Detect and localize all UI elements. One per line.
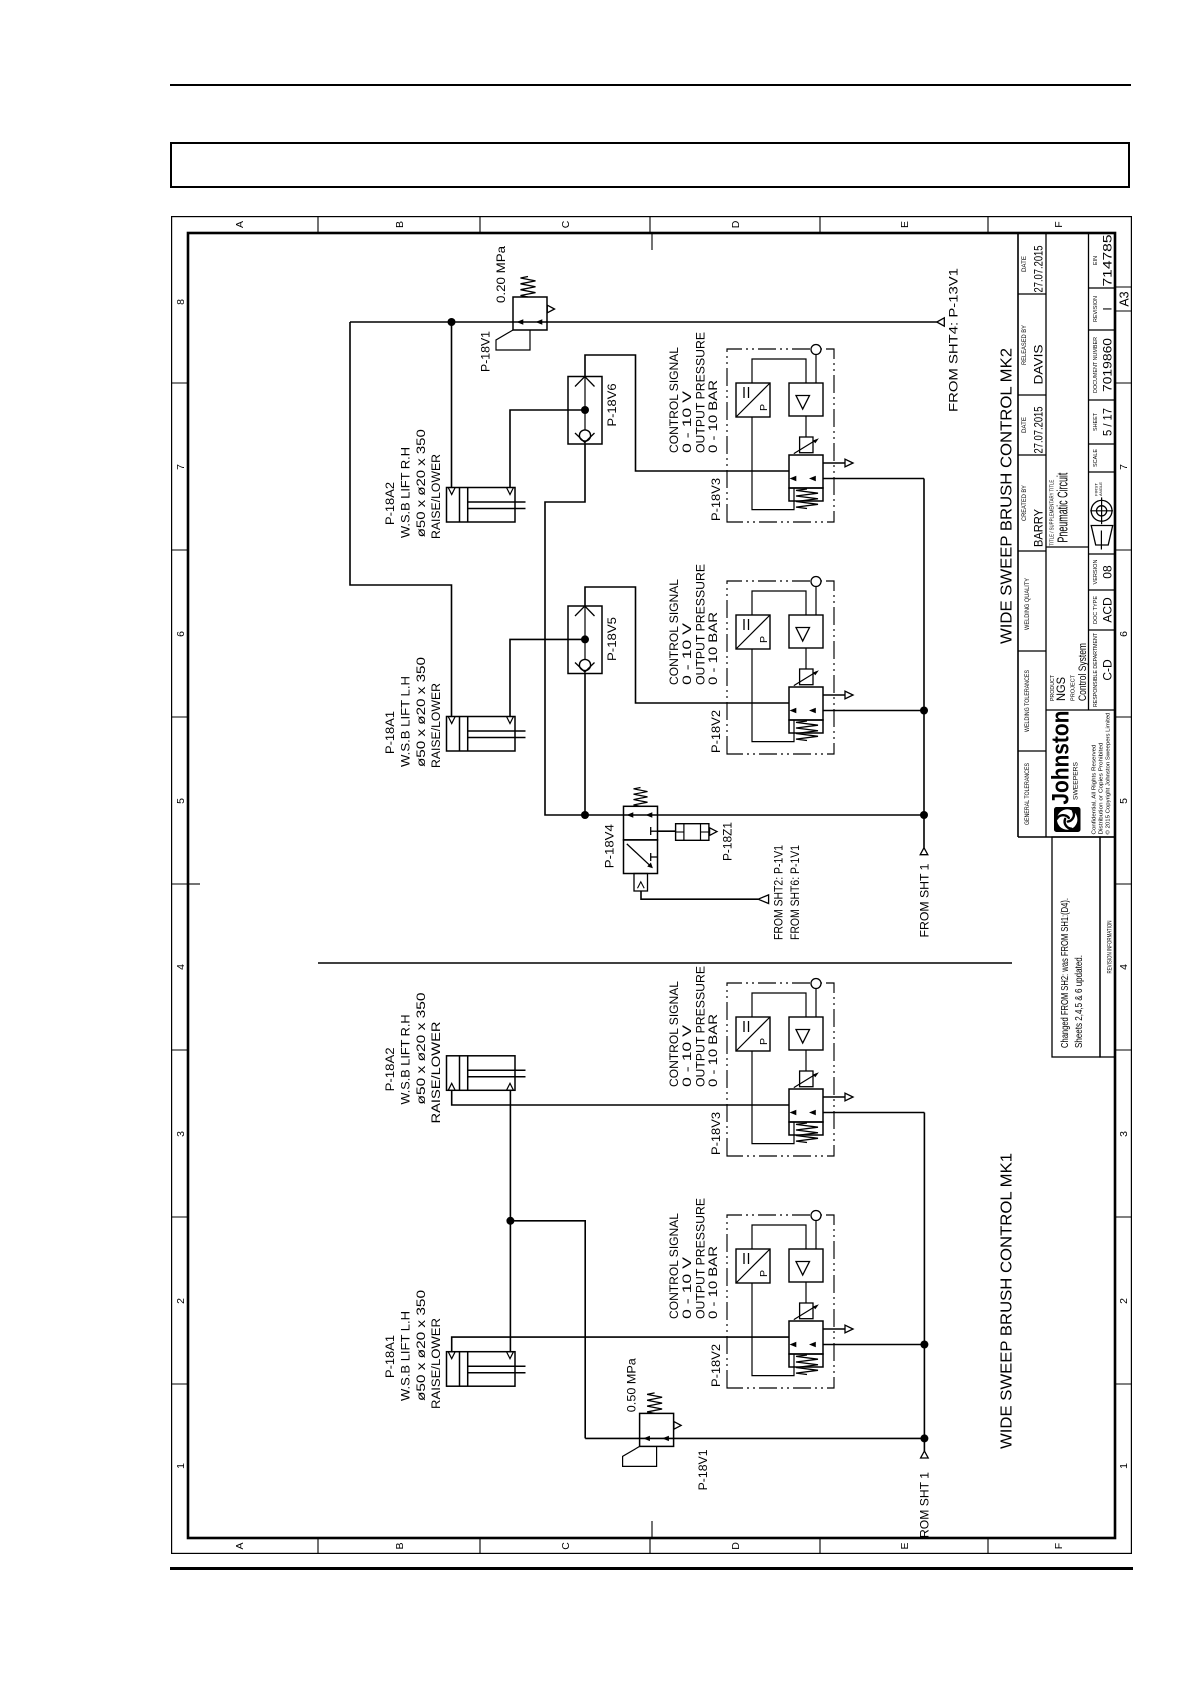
svg-text:3: 3 (175, 1131, 187, 1137)
svg-text:2: 2 (1118, 1298, 1130, 1304)
P-18V3 amplifier-throttle line (805, 416, 807, 437)
svg-text:5: 5 (175, 798, 187, 804)
wire P-18V5 to P-18V2 output (585, 587, 789, 703)
grid row dividers left margin (317, 1538, 319, 1553)
P-18V3 valve spring (796, 489, 818, 509)
svg-text:ø50 x ø20 x 350: ø50 x ø20 x 350 (416, 657, 428, 767)
svg-text:WELDING TOLERANCES: WELDING TOLERANCES (1024, 670, 1031, 732)
svg-text:2: 2 (175, 1298, 187, 1304)
cylinder P-18A2 MK2 port arrows (448, 488, 455, 495)
svg-text:P-18A1: P-18A1 (385, 711, 397, 754)
svg-text:RAISE/LOWER: RAISE/LOWER (431, 454, 443, 539)
svg-text:SHEET: SHEET (1093, 412, 1099, 431)
svg-text:OUTPUT PRESSURE: OUTPUT PRESSURE (696, 332, 708, 453)
svg-text:Pneumatic Circuit: Pneumatic Circuit (1056, 473, 1072, 543)
P-18V3 MK1 signal link line (752, 1051, 794, 1144)
svg-text:W.S.B LIFT R.H: W.S.B LIFT R.H (401, 1015, 413, 1105)
P-18V2 MK1 converter-amplifier connection (752, 1225, 806, 1249)
regulator P-18V1 spring (521, 277, 536, 298)
grid column dividers bottom margin (1115, 1383, 1131, 1385)
svg-text:BARRY: BARRY (1034, 509, 1046, 547)
cylinder P-18A1 MK2 rod (468, 737, 526, 739)
svg-text:SCALE: SCALE (1093, 449, 1099, 467)
MK2 P-18V2 input from rail (823, 710, 924, 712)
svg-text:27.07.2015: 27.07.2015 (1034, 246, 1046, 293)
wire P-18V5 left port to P-18V4 junction (584, 674, 586, 816)
svg-text:714785: 714785 (1101, 234, 1115, 286)
P-18V3 exhaust line (823, 462, 845, 464)
svg-text:Johnston: Johnston (1048, 711, 1075, 805)
cylinder P-18A1 MK2 port arrows (448, 717, 455, 724)
svg-text:P-18A1: P-18A1 (385, 1335, 397, 1378)
svg-text:DAVIS: DAVIS (1034, 344, 1046, 384)
svg-text:P-18V1: P-18V1 (698, 1449, 710, 1490)
svg-text:A: A (234, 1542, 246, 1549)
svg-text:WIDE SWEEP BRUSH CONTROL MK2: WIDE SWEEP BRUSH CONTROL MK2 (999, 348, 1016, 644)
P-18V4 pilot line (641, 891, 758, 899)
P-18V3 gauge port line (815, 355, 817, 384)
drawing inner frame (188, 233, 1115, 1538)
junction shuttle P-18V6 inlet (581, 406, 589, 414)
svg-text:FROM SHT6: P-1V1: FROM SHT6: P-1V1 (790, 845, 802, 940)
svg-text:DOCUMENT NUMBER: DOCUMENT NUMBER (1093, 337, 1099, 393)
centre tick left edge (651, 1521, 653, 1538)
first angle projection symbol (1091, 526, 1113, 546)
svg-text:8: 8 (175, 299, 187, 305)
regulator P-18V1 MK1 pilot line (623, 1446, 657, 1466)
proportional pressure control valve P-18V2 MK1 enclosure (727, 1215, 834, 1388)
svg-text:F: F (1053, 221, 1065, 227)
centre tick right edge (651, 233, 653, 250)
wire P-18V6 left port to P-18V4 junction (545, 444, 585, 815)
paper size A3 box (1115, 310, 1131, 312)
svg-text:7: 7 (175, 464, 187, 470)
title block row line 2 (1088, 233, 1090, 710)
svg-text:3: 3 (1118, 1131, 1130, 1137)
svg-text:P: P (758, 636, 770, 643)
P-18V2 MK1 gauge port line (815, 1221, 817, 1250)
P-18V3 MK1 adjustable throttle (800, 1071, 813, 1087)
P-18V2 gauge port line (815, 587, 817, 616)
P-18V3 MK1 valve flow arrows (790, 1110, 797, 1115)
page header rule (170, 84, 1131, 86)
arrow from SHT1 MK1 (921, 1451, 929, 1458)
svg-text:0 - 10 BAR: 0 - 10 BAR (708, 612, 720, 685)
svg-text:P-18Z1: P-18Z1 (723, 822, 735, 861)
P-18V3 MK1 valve body (789, 1089, 823, 1122)
svg-text:P-18V2: P-18V2 (711, 710, 723, 753)
svg-text:7: 7 (1118, 464, 1130, 470)
svg-text:P-18A2: P-18A2 (385, 1047, 397, 1091)
P-18V3 amplifier square (789, 383, 823, 416)
arrow from SHT1 MK2 (920, 848, 928, 855)
P-18V4 blocked port left square (650, 853, 652, 861)
svg-text:Sheets 2,4,5 & 6 updated.: Sheets 2,4,5 & 6 updated. (1073, 955, 1085, 1048)
svg-text:DOC TYPE: DOC TYPE (1093, 596, 1099, 624)
silencer P-18Z1 connection (658, 830, 676, 832)
P-18V2 MK1 signal link line (752, 1283, 794, 1376)
svg-text:7019860: 7019860 (1101, 338, 1115, 392)
svg-text:B: B (394, 221, 406, 228)
title block column line logo (1046, 709, 1115, 711)
svg-text:VERSION: VERSION (1093, 559, 1099, 584)
svg-text:RELEASED BY: RELEASED BY (1021, 325, 1028, 365)
svg-text:OUTPUT PRESSURE: OUTPUT PRESSURE (696, 1198, 708, 1319)
svg-text:I: I (1101, 307, 1115, 310)
MK2 supply rail from SHT 1 (923, 479, 925, 848)
pressure regulator P-18V1 body (513, 297, 547, 330)
P-18V2 amplifier square (789, 615, 823, 648)
junction rail/P-18V2 MK1 (920, 1341, 928, 1349)
svg-text:OUTPUT PRESSURE: OUTPUT PRESSURE (696, 564, 708, 685)
P-18V3 MK1 valve spring (796, 1123, 818, 1143)
MK1 P-18V3 input from rail (823, 1112, 924, 1114)
P-18V3 MK1 gauge port circle (811, 979, 821, 989)
regulator P-18V1 MK1 relief vent triangle (674, 1422, 681, 1430)
svg-text:27.07.2015: 27.07.2015 (1034, 407, 1046, 454)
svg-text:0 - 10 BAR: 0 - 10 BAR (708, 380, 720, 453)
svg-text:E: E (899, 1542, 911, 1549)
Johnston logo mark (1055, 808, 1081, 832)
svg-text:C: C (560, 1542, 572, 1550)
P-18V2 exhaust line (823, 694, 845, 696)
P-18V3 I/P converter square (736, 383, 770, 417)
P-18V3 MK1 converter-amplifier connection (752, 993, 806, 1017)
svg-text:P: P (758, 404, 770, 411)
P-18V3 MK1 I/P converter square (736, 1017, 770, 1051)
P-18V2 MK1 valve spring (796, 1355, 818, 1375)
svg-text:E: E (899, 221, 911, 228)
drawing outer border (172, 217, 1132, 1554)
P-18V2 MK1 amplifier-throttle line (805, 1282, 807, 1303)
svg-text:ø50 x ø20 x 350: ø50 x ø20 x 350 (416, 429, 428, 537)
svg-text:CONTROL SIGNAL: CONTROL SIGNAL (669, 1212, 681, 1319)
cylinder P-18A1 MK1 rod (468, 1372, 526, 1374)
shuttle valve P-18V5 right seat (575, 606, 595, 616)
P-18V3 MK1 I/P electric symbol (743, 1021, 745, 1032)
wire P-18A2 port B to shuttle P-18V6 (510, 410, 585, 488)
svg-text:Distribution or Copies Prohibi: Distribution or Copies Prohibited (1099, 742, 1105, 834)
arrow from SHT4 (937, 318, 945, 326)
regulator P-18V1 pilot line (496, 330, 530, 350)
svg-text:5 / 17: 5 / 17 (1101, 408, 1115, 436)
P-18V3 exhaust arrow (845, 459, 853, 467)
cylinder P-18A1 MK1 piston (459, 1352, 461, 1387)
svg-text:6: 6 (175, 631, 187, 637)
page footer rule (170, 1567, 1133, 1570)
junction rail/P-18V2 (920, 707, 928, 715)
junction rail/P-18V4 (920, 811, 928, 819)
cylinder P-18A1 MK1 barrel (447, 1352, 516, 1387)
svg-text:Control System: Control System (1077, 643, 1089, 701)
cylinder P-18A2 MK1 rod (468, 1076, 526, 1078)
centre tick top edge (188, 883, 200, 885)
wire P-18A1 port B to shuttle P-18V5 (510, 639, 585, 716)
svg-text:0 - 10 V: 0 - 10 V (682, 1025, 694, 1087)
P-18V2 MK1 exhaust line (823, 1328, 845, 1330)
svg-text:© 2015 Copyright Johnston Swee: © 2015 Copyright Johnston Sweepers Limit… (1105, 712, 1112, 834)
svg-text:08: 08 (1101, 565, 1115, 579)
proportional pressure control valve P-18V2 enclosure (727, 581, 834, 754)
svg-text:A3: A3 (1118, 291, 1132, 306)
svg-text:SWEEPERS: SWEEPERS (1073, 762, 1080, 800)
shuttle valve P-18V5 body (568, 606, 602, 674)
P-18V2 exhaust arrow (845, 691, 853, 699)
cylinder P-18A1 MK2 barrel (447, 717, 516, 752)
title block column lines row3 (1089, 629, 1116, 631)
P-18V4 blocked port right square (650, 827, 652, 835)
svg-text:1: 1 (1118, 1463, 1130, 1469)
shuttle valve P-18V6 right seat (575, 377, 595, 387)
junction shuttle P-18V5 inlet (581, 635, 589, 643)
MK1 supply rail riser (585, 1437, 924, 1439)
P-18V2 valve flow arrows (790, 708, 797, 713)
svg-text:Confidential, All Rights Reser: Confidential, All Rights Reserved (1092, 744, 1098, 834)
svg-text:ROM SHT 1: ROM SHT 1 (920, 1472, 932, 1538)
title block column lines row1 (1018, 750, 1046, 752)
wire P-18V6 to P-18V3 output (585, 355, 789, 471)
P-18V2 MK1 amplifier square (789, 1249, 823, 1282)
svg-text:0.50 MPa: 0.50 MPa (627, 1358, 639, 1413)
P-18V3 converter-amplifier connection (752, 359, 806, 383)
shuttle valve P-18V6 flow line (584, 377, 586, 445)
svg-text:GENERAL TOLERANCES: GENERAL TOLERANCES (1024, 763, 1031, 825)
svg-text:0 - 10 V: 0 - 10 V (682, 391, 694, 453)
svg-text:P-18V1: P-18V1 (481, 331, 493, 372)
svg-text:CREATED BY: CREATED BY (1021, 485, 1028, 521)
svg-text:4: 4 (175, 964, 187, 970)
wire P-18A2 MK1 port A to P-18V3 (452, 1090, 789, 1105)
MK1 riser to junction (510, 1221, 585, 1439)
P-18V3 MK1 gauge port line (815, 989, 817, 1018)
regulator P-18V1 MK1 flow arrows (643, 1436, 650, 1441)
P-18V2 adjustable throttle (800, 669, 813, 685)
svg-text:ø50 x ø20 x 350: ø50 x ø20 x 350 (416, 993, 428, 1105)
svg-text:D: D (730, 220, 742, 228)
P-18V3 MK1 amplifier square (789, 1017, 823, 1050)
junction rail/riser MK1 (920, 1434, 928, 1442)
svg-text:6: 6 (1118, 631, 1130, 637)
revision information strip (1100, 837, 1115, 1057)
P-18V2 signal link line (752, 649, 794, 742)
P-18V3 gauge port circle (811, 345, 821, 355)
svg-text:5: 5 (1118, 798, 1130, 804)
cylinder P-18A2 MK2 rod (468, 508, 526, 510)
svg-text:RAISE/LOWER: RAISE/LOWER (431, 1318, 443, 1409)
P-18V2 MK1 valve flow arrows (790, 1342, 797, 1347)
svg-text:C-D: C-D (1101, 659, 1115, 681)
cylinder P-18A2 MK1 piston (459, 1056, 461, 1091)
P-18V2 MK1 valve body (789, 1321, 823, 1354)
grid column dividers top margin (172, 1383, 188, 1385)
MK1 supply rail from SHT 1 (923, 1113, 925, 1452)
svg-text:ACD: ACD (1101, 597, 1115, 623)
svg-text:W.S.B LIFT L.H: W.S.B LIFT L.H (401, 676, 413, 767)
svg-text:C: C (560, 220, 572, 228)
P-18V3 valve flow arrows (790, 476, 797, 481)
P-18V3 amplifier triangle (796, 396, 810, 410)
P-18V3 MK1 amplifier triangle (796, 1030, 810, 1044)
P-18V4 pilot box (634, 874, 648, 892)
grid row dividers right margin (317, 217, 319, 233)
P-18V2 MK1 adjustable throttle (800, 1303, 813, 1319)
proportional pressure control valve P-18V3 MK1 enclosure (727, 983, 834, 1156)
regulator P-18V1 relief vent triangle (547, 305, 554, 313)
svg-text:CONTROL SIGNAL: CONTROL SIGNAL (669, 578, 681, 685)
P-18V2 MK1 I/P electric symbol (743, 1253, 745, 1264)
svg-text:B: B (394, 1542, 406, 1549)
svg-text:0.20 MPa: 0.20 MPa (496, 245, 508, 303)
title block row line 1 (1045, 233, 1047, 837)
P-18V3 signal link line (752, 417, 794, 510)
svg-text:DATE: DATE (1021, 256, 1028, 272)
svg-text:ø50 x ø20 x 350: ø50 x ø20 x 350 (416, 1290, 428, 1401)
svg-text:4: 4 (1118, 964, 1130, 970)
MK2 supply top detour to P-18A1 (350, 322, 452, 716)
cylinder P-18A2 MK2 piston (459, 488, 461, 523)
page header empty box (170, 142, 1130, 188)
P-18V2 amplifier triangle (796, 628, 810, 642)
svg-text:WELDING QUALITY: WELDING QUALITY (1024, 578, 1031, 630)
half divider line between MK1 and MK2 (318, 962, 1012, 964)
shuttle valve P-18V6 body (568, 377, 602, 445)
regulator P-18V1 flow arrows (517, 319, 524, 324)
svg-text:REVISION: REVISION (1093, 296, 1099, 322)
svg-text:FROM SHT4: P-13V1: FROM SHT4: P-13V1 (947, 268, 961, 412)
P-18V2 I/P converter square (736, 615, 770, 649)
pressure regulator P-18V1 MK1 body (640, 1413, 674, 1446)
svg-text:EIN: EIN (1093, 256, 1099, 265)
svg-text:0 - 10 V: 0 - 10 V (682, 623, 694, 685)
P-18V4 spring (634, 788, 648, 807)
svg-text:0 - 10 BAR: 0 - 10 BAR (708, 1246, 720, 1319)
svg-text:P-18A2: P-18A2 (385, 482, 397, 525)
svg-text:CONTROL SIGNAL: CONTROL SIGNAL (669, 980, 681, 1087)
P-18V2 amplifier-throttle line (805, 648, 807, 669)
shuttle valve P-18V5 left seat (575, 663, 595, 673)
svg-text:CONTROL SIGNAL: CONTROL SIGNAL (669, 346, 681, 453)
svg-text:0 - 10 V: 0 - 10 V (682, 1257, 694, 1319)
svg-text:NGS: NGS (1056, 677, 1068, 701)
P-18V2 MK1 exhaust arrow (845, 1325, 853, 1333)
P-18V3 I/P electric symbol (743, 387, 745, 398)
svg-text:P-18V3: P-18V3 (711, 1112, 723, 1155)
cylinder P-18A1 MK2 piston (459, 717, 461, 752)
svg-text:P-18V4: P-18V4 (605, 824, 617, 869)
svg-text:F: F (1053, 1543, 1065, 1549)
svg-text:OUTPUT PRESSURE: OUTPUT PRESSURE (696, 966, 708, 1087)
junction at P-18V4 top (581, 811, 589, 819)
wire through P-18V4 to supply rail (585, 814, 924, 816)
shuttle valve P-18V5 ball (579, 659, 590, 670)
P-18V2 I/P electric symbol (743, 619, 745, 630)
MK2 P-18V3 input from rail (823, 478, 924, 480)
P-18V2 valve spring (796, 721, 818, 741)
svg-text:P-18V5: P-18V5 (607, 617, 619, 661)
svg-text:A: A (234, 221, 246, 228)
cylinder P-18A1 MK1 port arrows (448, 1352, 455, 1359)
P-18V2 MK1 amplifier triangle (796, 1262, 810, 1276)
svg-text:RAISE/LOWER: RAISE/LOWER (431, 1022, 443, 1124)
svg-text:PROJECT: PROJECT (1071, 674, 1077, 701)
svg-text:0 - 10 BAR: 0 - 10 BAR (708, 1014, 720, 1087)
svg-text:DATE: DATE (1021, 417, 1028, 433)
svg-text:W.S.B LIFT R.H: W.S.B LIFT R.H (401, 447, 413, 538)
shuttle valve P-18V6 ball (579, 430, 590, 441)
svg-text:REVISION INFORMATION: REVISION INFORMATION (1108, 921, 1114, 974)
junction supply/P-18A2 (448, 318, 456, 326)
svg-text:P-18V3: P-18V3 (711, 478, 723, 521)
svg-text:1: 1 (175, 1463, 187, 1469)
P-18V4 flow arrows (627, 812, 634, 817)
P-18V2 MK1 I/P converter square (736, 1249, 770, 1283)
P-18V3 MK1 exhaust arrow (845, 1093, 853, 1101)
svg-text:P-18V2: P-18V2 (711, 1344, 723, 1387)
wire junction to P-18A1 MK1 port B (509, 1221, 511, 1352)
svg-text:FROM SHT2: P-1V1: FROM SHT2: P-1V1 (774, 845, 786, 940)
svg-text:ANGLE: ANGLE (1098, 482, 1103, 496)
title block outline (1017, 233, 1019, 837)
P-18V3 MK1 amplifier-throttle line (805, 1050, 807, 1071)
MK2 supply line from SHT4 (350, 321, 937, 323)
title block column line title cell (1046, 546, 1089, 548)
P-18V3 adjustable throttle (800, 437, 813, 453)
cylinder P-18A2 MK1 barrel (447, 1056, 516, 1091)
wire P-18A1 MK1 port A to P-18V2 (452, 1337, 789, 1352)
silencer P-18Z1 body (676, 824, 709, 841)
svg-text:FROM SHT 1: FROM SHT 1 (920, 864, 932, 938)
regulator P-18V1 MK1 spring (647, 1393, 662, 1414)
svg-text:RESPONSIBLE DEPARTMENT: RESPONSIBLE DEPARTMENT (1093, 632, 1099, 707)
P-18V2 gauge port circle (811, 577, 821, 587)
proportional pressure control valve P-18V3 enclosure (727, 349, 834, 522)
svg-text:P: P (758, 1270, 770, 1277)
wire junction to P-18A2 MK1 port B (509, 1090, 511, 1221)
shuttle valve P-18V6 left seat (575, 433, 595, 443)
svg-text:P: P (758, 1038, 770, 1045)
shuttle valve P-18V5 flow line (584, 606, 586, 674)
junction MK1 cylinders (506, 1217, 514, 1225)
P-18V3 MK1 exhaust line (823, 1096, 845, 1098)
cylinder P-18A2 MK1 port arrows (448, 1083, 455, 1090)
MK1 P-18V2 input from rail (823, 1344, 924, 1346)
arrow from SHT2/SHT6 (758, 895, 769, 904)
svg-text:Changed FROM SH2: was FROM SH: Changed FROM SH2: was FROM SH1:(D4). (1059, 898, 1071, 1048)
wire supply to P-18A2 port A (451, 322, 453, 488)
P-18V2 converter-amplifier connection (752, 591, 806, 615)
3/2 valve P-18V4 body (624, 840, 658, 874)
P-18V2 MK1 gauge port circle (811, 1211, 821, 1221)
svg-text:RAISE/LOWER: RAISE/LOWER (431, 683, 443, 768)
svg-text:WIDE SWEEP BRUSH CONTROL MK1: WIDE SWEEP BRUSH CONTROL MK1 (999, 1153, 1016, 1449)
rotated drawing sheet (171, 216, 1132, 1554)
P-18V4 crossed flow path (627, 844, 651, 866)
P-18V3 valve body (789, 455, 823, 488)
svg-text:P-18V6: P-18V6 (607, 384, 619, 427)
cylinder P-18A2 MK2 barrel (447, 488, 516, 523)
silencer P-18Z1 outlet triangle (710, 828, 717, 836)
revision information box (1052, 837, 1100, 1057)
P-18V2 valve body (789, 687, 823, 720)
svg-text:W.S.B LIFT L.H: W.S.B LIFT L.H (401, 1311, 413, 1401)
svg-text:D: D (730, 1542, 742, 1550)
